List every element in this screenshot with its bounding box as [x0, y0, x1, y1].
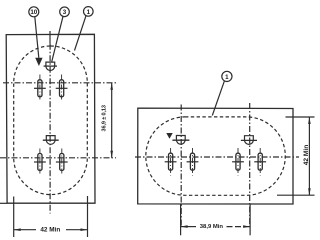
svg-text:38,9 Min: 38,9 Min	[200, 224, 224, 230]
callout balloon 1 left	[75, 7, 94, 51]
svg-text:42 Min: 42 Min	[303, 145, 310, 166]
right view right module earth contact symbol	[241, 136, 257, 145]
left view row1 polarization triangle	[35, 58, 42, 66]
left view vertical centerline	[49, 31, 51, 214]
right view right module contact slot right	[254, 148, 266, 176]
left view row2 earth contact symbol	[43, 136, 59, 145]
svg-text:1: 1	[87, 9, 91, 16]
right view left module contact slot right	[187, 148, 199, 176]
right view dashed cutout stadium	[146, 117, 285, 195]
dimension 38,9 Min bottom right view	[181, 204, 251, 235]
right view left module polarization triangle	[166, 133, 172, 139]
right view horizontal centerline	[135, 156, 299, 158]
dimension 36,9 vertical left view	[110, 83, 113, 158]
right view left module vertical centerline	[180, 105, 182, 226]
left view row2 contact slot left	[34, 149, 46, 176]
right view left module earth contact symbol	[172, 136, 189, 145]
right view left module contact slot left	[165, 148, 177, 176]
left view panel rectangle	[0, 34, 95, 203]
left view row1 contact slot right	[56, 75, 68, 102]
right view right module vertical centerline	[249, 103, 251, 226]
dimension 42 Min bottom left view	[14, 196, 88, 237]
svg-text:42 Min: 42 Min	[40, 227, 60, 234]
left view row2 contact slot right	[56, 149, 68, 176]
left view row1 earth contact symbol	[44, 62, 57, 70]
right view right module contact slot left	[232, 148, 244, 176]
svg-text:36,9 ± 0,13: 36,9 ± 0,13	[101, 105, 107, 131]
svg-text:1: 1	[225, 74, 229, 81]
left view row1 contact slot left	[34, 75, 46, 102]
left view row1 horizontal centerline	[3, 82, 116, 84]
callout balloon 10	[29, 7, 39, 58]
callout balloon 3	[52, 7, 70, 62]
svg-text:3: 3	[63, 9, 67, 16]
svg-text:10: 10	[30, 9, 37, 16]
left view dashed cutout stadium	[14, 46, 88, 195]
dimension 42 Min vertical right view	[277, 117, 315, 195]
left view row2 horizontal centerline	[0, 157, 116, 159]
right view panel rectangle	[138, 108, 293, 204]
callout balloon 1 right	[212, 71, 232, 115]
